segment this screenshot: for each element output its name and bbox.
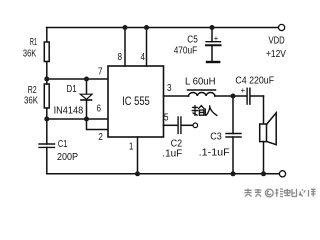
- node VDD terminal circle: [279, 24, 285, 30]
- svg-text:+12V: +12V: [266, 49, 286, 60]
- wire pin 2 branch: [87, 119, 109, 130]
- wire pin 5 line: [164, 124, 178, 126]
- svg-text:470uF: 470uF: [174, 45, 198, 56]
- svg-text:36K: 36K: [23, 48, 37, 59]
- wire pin 7 line: [47, 78, 108, 80]
- wire speaker top lead: [263, 96, 265, 124]
- wire pin 8: [124, 28, 126, 67]
- svg-text:3: 3: [167, 83, 172, 94]
- capacitor C1: [39, 119, 55, 174]
- svg-text:.1uF: .1uF: [162, 149, 182, 160]
- svg-text:200P: 200P: [57, 152, 78, 163]
- svg-text:.1-1uF: .1-1uF: [199, 147, 230, 158]
- ground bar below C5: [207, 61, 219, 63]
- node junction dots: [123, 25, 128, 30]
- label input chinese 输入: [192, 106, 217, 116]
- wire bottom rail: [47, 173, 279, 175]
- svg-text:1: 1: [129, 142, 134, 153]
- svg-text:R1: R1: [30, 37, 38, 48]
- wire R1 top lead: [46, 28, 48, 43]
- capacitor C4: [247, 88, 263, 104]
- node output terminal circle bottom right: [279, 171, 285, 177]
- svg-text:C1: C1: [58, 139, 68, 150]
- wire pin 4: [146, 28, 148, 67]
- watermark 头条@绿色比心情: [245, 189, 316, 197]
- resistor R1: [44, 42, 49, 62]
- svg-text:C2: C2: [171, 138, 183, 149]
- capacitor C5: [206, 28, 221, 62]
- wire pin 1: [137, 137, 139, 174]
- speaker LS1: [260, 113, 277, 145]
- wire L to C4: [215, 95, 247, 97]
- svg-text:7: 7: [98, 67, 103, 78]
- svg-text:D1: D1: [67, 84, 77, 95]
- op-amp U1 IC 555 box: [108, 66, 164, 137]
- svg-text:IN4148: IN4148: [54, 105, 84, 116]
- wire R2 leads: [46, 79, 48, 84]
- svg-text:6: 6: [96, 104, 101, 115]
- svg-text:4: 4: [140, 52, 145, 63]
- wire top rail VDD: [47, 27, 279, 29]
- inductor L 60uH: [188, 90, 216, 96]
- svg-text:R2: R2: [28, 85, 37, 96]
- svg-text:36K: 36K: [24, 96, 38, 107]
- node input terminal circle: [193, 123, 198, 128]
- svg-text:VDD: VDD: [269, 36, 285, 47]
- svg-text:5: 5: [164, 112, 169, 123]
- svg-text:+: +: [241, 86, 246, 95]
- wire pin 6 line: [47, 118, 108, 120]
- svg-text:L 60uH: L 60uH: [185, 77, 216, 88]
- svg-text:8: 8: [118, 52, 123, 63]
- svg-text:2: 2: [98, 132, 103, 143]
- svg-text:C3: C3: [210, 132, 222, 143]
- diode D1: [80, 79, 92, 119]
- wire speaker bottom lead: [263, 142, 265, 174]
- svg-text:IC 555: IC 555: [122, 96, 150, 108]
- wire pin 3 line: [164, 95, 189, 97]
- capacitor C3: [226, 96, 241, 174]
- wire R1 bottom lead: [46, 62, 48, 80]
- capacitor C2: [178, 117, 193, 133]
- svg-text:C5: C5: [187, 34, 198, 45]
- resistor R2: [44, 84, 49, 108]
- svg-text:+: +: [214, 34, 219, 43]
